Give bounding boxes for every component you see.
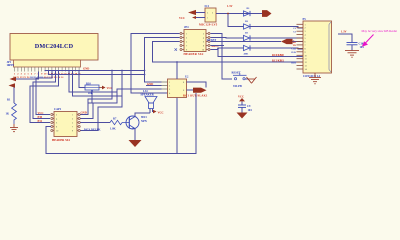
power arrow VCC pot — [102, 86, 106, 90]
svg-text:GND: GND — [83, 68, 89, 71]
svg-text:HEADER 5X2: HEADER 5X2 — [52, 138, 71, 142]
power arrow VCC into IC1 — [192, 16, 196, 19]
connector JP1 16PIN under LCD — [7, 60, 81, 67]
VCC arrow above C9 — [238, 96, 245, 105]
junction dots on bus — [111, 70, 113, 72]
svg-text:U2: U2 — [185, 76, 189, 79]
svg-text:HEADER 5X2: HEADER 5X2 — [184, 52, 204, 56]
potentiometer R10 — [85, 82, 99, 94]
branch wire down to U2 top pin — [176, 62, 178, 79]
svg-text:2: 2 — [305, 28, 306, 30]
svg-text:4001: 4001 — [244, 52, 250, 55]
ground under C16 — [345, 51, 359, 58]
header JP4 HEADER 5X2 — [184, 26, 207, 56]
ground under Q1 — [129, 140, 142, 147]
svg-text:R10: R10 — [86, 82, 91, 85]
sheet background — [0, 0, 400, 160]
svg-text:CAP1: CAP1 — [54, 108, 62, 111]
wire JP4 pin10 to D4 and key row — [211, 48, 303, 57]
pot wiper wire down — [88, 90, 92, 103]
svg-text:NPN: NPN — [141, 120, 147, 123]
U2 top pin wire from JP4 pin5 — [153, 42, 303, 63]
diode D4 — [244, 45, 251, 55]
JP1 pin number labels — [14, 72, 81, 75]
svg-text:9: 9 — [305, 52, 306, 54]
svg-text:KB1: KB1 — [291, 62, 296, 65]
no-connect mark JP4 pin9 — [175, 48, 178, 51]
junction — [217, 48, 219, 50]
svg-text:9013: 9013 — [141, 116, 147, 119]
port BATT left near CON14 — [281, 39, 293, 44]
ground right of switch — [247, 77, 257, 83]
header CAP1 HEADER 5X2 — [52, 108, 77, 142]
CON14 pins — [297, 24, 308, 71]
D3 out wire — [250, 37, 303, 39]
svg-text:R7: R7 — [113, 118, 117, 121]
svg-text:1.0K: 1.0K — [110, 127, 116, 130]
svg-text:SPEAKER: SPEAKER — [141, 93, 155, 96]
wire JP4 pin6 to BATT port — [211, 41, 282, 43]
junction — [227, 13, 229, 15]
svg-text:R1: R1 — [7, 99, 11, 102]
diode D1 — [244, 7, 251, 16]
nested wire CAP1 to U2 pin3 — [81, 89, 162, 119]
svg-text:VCC: VCC — [179, 17, 185, 20]
wire CAP1 to base resistor — [81, 122, 111, 124]
JP4 pins — [180, 33, 210, 52]
push button RESET1 — [232, 72, 247, 89]
svg-text:C9: C9 — [247, 105, 251, 108]
JP1 pin leads — [15, 67, 80, 72]
D4 out wire — [250, 47, 303, 50]
svg-text:104: 104 — [248, 109, 253, 112]
svg-text:VCC: VCC — [158, 112, 164, 115]
resistor R1 — [6, 99, 17, 125]
svg-text:1: 1 — [305, 24, 306, 26]
ground under R1 — [10, 124, 18, 132]
wire GND stub to U2 pin2 — [146, 85, 162, 87]
diode D3 — [244, 32, 251, 41]
transistor Q1 9013 NPN — [126, 116, 147, 129]
CAP1 pins — [51, 114, 80, 133]
power arrow into IC1 — [188, 10, 196, 15]
speaker LS1 — [141, 90, 158, 108]
speaker VCC wire — [152, 109, 155, 112]
annotation May be very slow KB Reslut — [362, 29, 398, 47]
wire pot to VCC — [99, 87, 102, 89]
wires LCD pins to lower bus — [69, 70, 117, 92]
U2 bottom pin wire — [176, 98, 178, 154]
collector wire to speaker — [135, 109, 150, 117]
IC U2 — [168, 76, 190, 98]
svg-text:1.3V: 1.3V — [227, 5, 233, 8]
power arrow VCC left 2 — [9, 83, 16, 87]
capacitor C9 — [238, 105, 252, 113]
svg-text:1.3V: 1.3V — [341, 31, 347, 34]
nested wire CAP1 to bus — [81, 71, 123, 131]
svg-text:JP4: JP4 — [184, 26, 189, 29]
emitter wire to ground — [134, 129, 136, 141]
resistor R7 — [110, 118, 127, 131]
svg-text:VCC: VCC — [238, 96, 244, 99]
diode D2 — [244, 20, 251, 29]
wire power arrow 2 to resistor R1 — [14, 86, 15, 104]
svg-text:CLK: CLK — [291, 51, 296, 54]
ground under C9 — [237, 113, 248, 119]
U2 pin right to port wire — [187, 82, 207, 90]
wire JP4 pin8 stub — [211, 45, 225, 47]
svg-text:RC1 OUT/SLAK1: RC1 OUT/SLAK1 — [183, 94, 208, 97]
CAP1 left stub wires — [39, 115, 50, 123]
IC1 output wire — [216, 14, 262, 27]
svg-text:SW-PB: SW-PB — [233, 85, 242, 88]
wire LCD to U2 pin1 — [45, 69, 144, 71]
LCD module DMC204LCD — [10, 34, 98, 61]
svg-text:RESET: RESET — [232, 72, 241, 75]
wire JP4 pin1 to U2 pin4 — [131, 34, 180, 94]
nested wire CAP1 to bus A — [81, 71, 113, 115]
svg-text:RC1/KBI1: RC1/KBI1 — [272, 59, 285, 62]
wire CAP1 to bottom loop — [46, 93, 196, 154]
D2 out wire — [250, 27, 303, 28]
power arrow VCC left 1 — [10, 77, 17, 81]
wire LCD pin down to pot R10 — [79, 70, 85, 87]
wire JP4 pin3 to bus — [145, 38, 180, 83]
U2 left pin stubs — [162, 82, 168, 89]
junction — [144, 70, 146, 72]
CON14 ground — [309, 73, 321, 84]
svg-text:A1: A1 — [61, 76, 64, 79]
wires LCD pins down to CAP1 labels — [36, 70, 52, 114]
svg-text:11: 11 — [305, 59, 307, 61]
IC1 left wires — [196, 13, 205, 18]
connector CON14 — [303, 18, 332, 78]
wire JP4 pin4 to D3 — [211, 37, 244, 40]
wire JP4 pin2 to reset switch — [211, 34, 233, 80]
switch right wire — [245, 78, 248, 80]
JP1 pin name labels — [13, 76, 63, 79]
svg-text:RC0/KBI0: RC0/KBI0 — [272, 54, 285, 57]
svg-text:MIC129-LV5: MIC129-LV5 — [199, 22, 218, 26]
svg-text:DMC204LCD: DMC204LCD — [35, 43, 74, 50]
svg-text:IC1: IC1 — [205, 5, 210, 8]
power arrow VCC speaker — [153, 110, 157, 114]
svg-text:12: 12 — [305, 62, 307, 64]
port RC1 OUT — [193, 88, 207, 93]
regulator IC1 — [199, 5, 218, 27]
port VDD right — [262, 10, 272, 17]
net 1.3V with capacitor C16 — [338, 31, 364, 51]
svg-text:16PIN: 16PIN — [7, 64, 15, 67]
wire LCD long bus row 2 — [49, 70, 145, 74]
svg-text:May be very slow KB Reslut: May be very slow KB Reslut — [362, 29, 398, 33]
wire LCD pin to power arrow 1 — [16, 72, 38, 80]
